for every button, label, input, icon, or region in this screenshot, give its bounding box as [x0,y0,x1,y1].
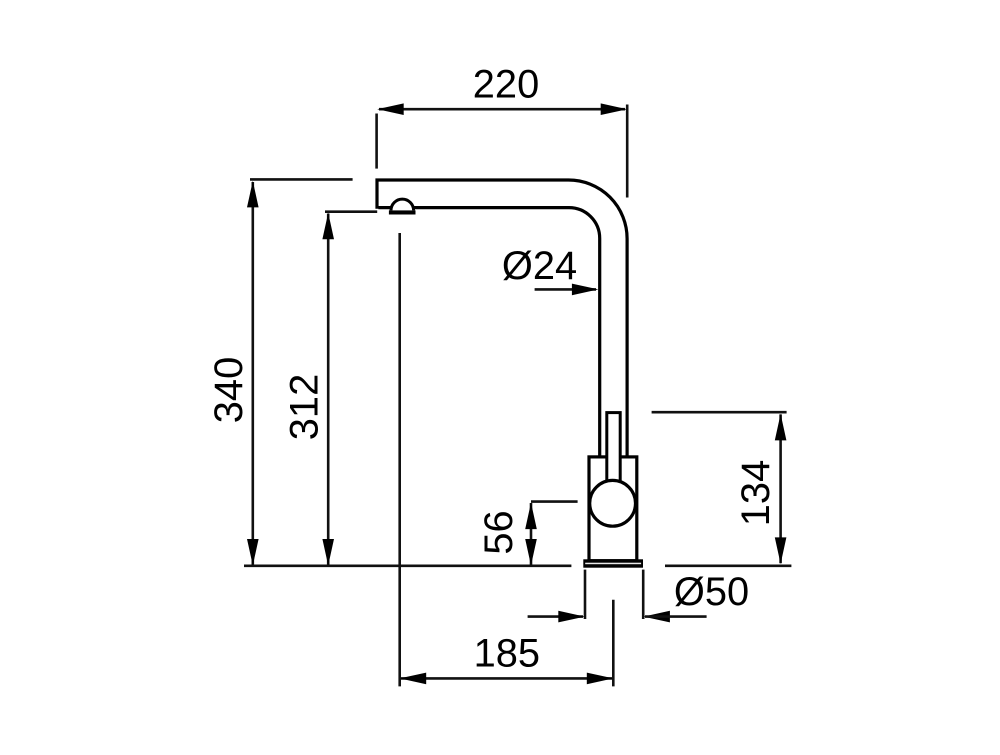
dim 185 line [401,677,613,680]
dim 185 left extension line (outlet centre line) [398,233,401,686]
countertop line right segment [665,564,791,567]
dim 56 top arrow [525,503,537,529]
spout inner edge (bottom + inner bend + left side of riser tube) [378,208,599,457]
dim 312 top extension line [325,210,377,213]
svg-text:Ø50: Ø50 [674,570,749,614]
dim D50 right arrow line [645,615,707,618]
dim D50 left extension line [584,570,587,619]
dim 56 top extension line [531,500,578,503]
dim 340 top arrow [247,181,259,208]
dim 134 line [779,414,782,563]
dim D50 right arrow head [643,611,670,623]
dim 134 bottom arrow [775,537,787,564]
handle ball joint circle [590,480,636,526]
dim D50 right extension line [642,570,645,619]
base flange [583,559,643,567]
dim 220 left extension line [375,114,378,169]
svg-text:220: 220 [473,63,539,107]
svg-text:134: 134 [734,460,778,526]
dim D50 left arrow head [558,611,585,623]
dim 220 line [379,108,625,111]
svg-text:340: 340 [207,357,251,423]
dim 134 top arrow [775,414,787,441]
dim 56 bottom arrow [525,539,537,566]
dim 56 line [530,503,533,565]
dim D24 arrow [572,284,599,296]
svg-text:56: 56 [477,510,521,554]
dim D50 left arrow line [528,615,583,618]
dim 134 top extension line [652,411,787,414]
dim 185 right extension line (body centre line) [612,600,615,687]
handle lever [607,413,620,491]
dim 340 bottom arrow [247,539,259,566]
faucet body [589,457,637,561]
dim 220 left arrow [377,103,404,115]
dim D24 leader line [535,288,596,291]
dim 340 top extension line [250,178,353,181]
svg-text:Ø24: Ø24 [502,244,577,288]
dim 185 right arrow [587,673,614,685]
dim 312 top arrow [322,213,334,240]
dim 185 left arrow [400,673,427,685]
aerator base plate [389,210,416,214]
svg-text:312: 312 [283,374,327,440]
dim 220 right arrow [601,103,628,115]
dim 340 line [252,182,255,565]
dim 220 right extension line [626,105,629,198]
dim 312 bottom arrow [322,539,334,566]
countertop line left segment [244,564,571,567]
aerator dome [391,199,414,210]
svg-text:185: 185 [474,631,540,675]
spout outer edge (top + bend + right side of riser tube) [377,180,627,457]
dim 312 line [327,214,330,566]
